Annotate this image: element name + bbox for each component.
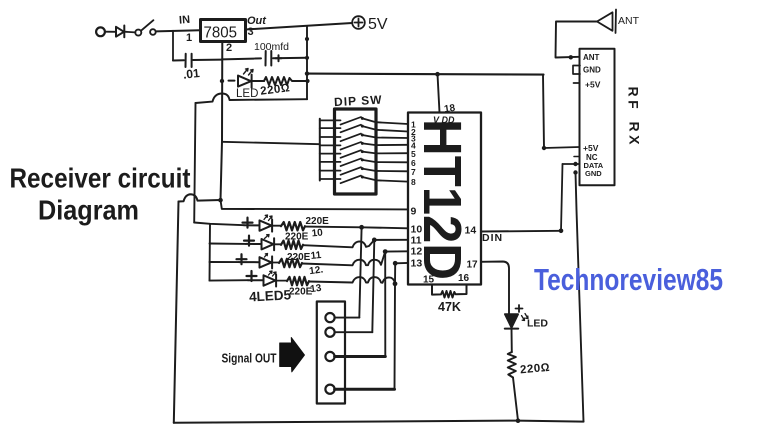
wire	[124, 31, 135, 34]
svg-text:12.: 12.	[309, 264, 325, 277]
svg-text:14: 14	[465, 225, 477, 237]
LED D6 output 4	[248, 275, 276, 287]
node pin10 junction	[359, 225, 364, 230]
node GND/LED junction	[220, 79, 224, 83]
node ANT wire	[569, 55, 573, 59]
LED D3 output 1	[244, 220, 272, 232]
diode D1	[116, 26, 124, 38]
wire DATA vertical	[561, 164, 563, 231]
LED D3 arrows	[264, 215, 272, 221]
svg-text:16: 16	[458, 273, 470, 284]
label + anode row4	[247, 271, 257, 281]
svg-text:11: 11	[310, 250, 322, 262]
node pin13 junction	[393, 261, 398, 266]
pin GND bracket	[573, 66, 580, 75]
node DIN/DATA junction	[559, 229, 564, 234]
node dots on x307	[305, 37, 310, 83]
wire RF GND down to bottom rail	[576, 173, 584, 422]
resistor R1 220ohm	[264, 77, 307, 85]
wire +5V feed with hop over x222	[196, 94, 308, 104]
node GND junction	[218, 198, 223, 203]
wire +5V anode rail corner to row1	[194, 223, 244, 226]
wire left GND rail	[174, 202, 179, 423]
svg-text:.01: .01	[182, 66, 200, 82]
wire pin14 DIN	[481, 230, 561, 233]
wire pin10	[362, 227, 408, 228]
wire DATA pin	[563, 163, 580, 165]
svg-text:10: 10	[411, 223, 423, 235]
node row4 junction	[393, 281, 398, 286]
wire pin11	[374, 239, 408, 241]
wire pin12	[385, 250, 408, 252]
svg-text:12: 12	[411, 246, 423, 258]
resistor R7 220ohm vertical	[508, 352, 516, 378]
wire anode sub-rail x210	[209, 224, 212, 281]
antenna ANT symbol	[597, 10, 616, 34]
svg-text:17: 17	[467, 260, 479, 271]
wire D7 to R7	[511, 329, 513, 352]
pin NC tick	[574, 156, 580, 158]
svg-text:+5V: +5V	[585, 80, 601, 90]
svg-text:IN: IN	[179, 14, 191, 27]
wire +5V top rail	[307, 74, 544, 75]
wire signal4 vertical	[394, 263, 397, 389]
wire 7805 out to +5V	[246, 23, 353, 30]
svg-text:100mfd: 100mfd	[254, 41, 289, 53]
resistor R5 220E	[273, 262, 279, 264]
connector pin 3	[325, 352, 334, 361]
LED D7	[505, 314, 518, 328]
input terminal J1	[96, 27, 105, 36]
wire row3 stub	[210, 261, 240, 263]
wire pin17 to LED	[481, 262, 509, 314]
LED D4 arrows	[265, 235, 270, 239]
wire signal2 vertical	[372, 240, 374, 332]
label + D7	[516, 305, 523, 312]
wire 7805 pin2 GND vertical x222	[221, 42, 223, 201]
resistor R4 220E	[275, 243, 281, 245]
svg-text:ANT: ANT	[618, 15, 640, 27]
svg-text:+5V: +5V	[583, 143, 599, 153]
connector pin 4	[325, 385, 334, 394]
pin +5V tick	[574, 82, 580, 84]
svg-text:18: 18	[443, 103, 456, 116]
wire signal1 vertical	[359, 227, 361, 317]
node DATA pin	[573, 162, 577, 166]
wire HT12D pin9 GND	[221, 200, 409, 209]
resistor R3 220E	[273, 225, 281, 227]
node VDD tap	[435, 72, 440, 77]
dip switch pole 8	[320, 178, 341, 180]
wire signal3 vertical	[384, 252, 386, 357]
wire +5V down to RF RX	[543, 75, 544, 148]
svg-text:9: 9	[411, 206, 417, 218]
svg-text:15: 15	[423, 275, 435, 286]
node LED chain to rail	[516, 418, 521, 423]
switch S1	[135, 20, 155, 35]
svg-text:8: 8	[411, 177, 416, 187]
wire +5V rail vertical x307	[306, 26, 308, 99]
svg-text:220E: 220E	[285, 232, 309, 243]
svg-text:Signal OUT: Signal OUT	[222, 352, 277, 366]
wire GND to DIP rail	[222, 142, 320, 144]
svg-text:V DD: V DD	[433, 115, 455, 125]
signal out arrow	[280, 338, 305, 372]
LED D7 arrows	[522, 314, 529, 321]
wire row4 to pin13 junction with hops	[309, 277, 395, 284]
wire row2 stub	[210, 243, 247, 245]
svg-text:5V: 5V	[368, 16, 388, 33]
label + anode row1	[243, 218, 253, 228]
dip switch pole 4	[320, 144, 341, 146]
node pin12 junction	[383, 249, 388, 254]
dip switch pole 3	[320, 136, 341, 138]
connector pin 1	[325, 313, 334, 322]
label + anode row3	[237, 254, 247, 264]
node input/C1 junction	[172, 31, 174, 61]
dip switch pole 7	[320, 170, 341, 172]
wire VDD pin18	[438, 74, 440, 112]
wire input to 7805 IN	[156, 30, 200, 31]
svg-text:LED: LED	[527, 318, 548, 330]
svg-text:47K: 47K	[438, 300, 461, 314]
dip switch pole 1	[320, 119, 341, 121]
svg-text:DIP SW: DIP SW	[334, 93, 383, 110]
svg-text:220E: 220E	[306, 216, 330, 227]
LED D4 output 2	[246, 238, 274, 250]
dip switch pole 6	[320, 161, 341, 163]
LED D5 arrows	[265, 254, 268, 258]
wire connector pin1	[335, 317, 360, 319]
wire +5V to RF RX pin	[544, 147, 580, 148]
capacitor C1 .01	[173, 54, 222, 67]
node pin11 junction	[372, 238, 377, 243]
svg-text:ANT: ANT	[583, 53, 600, 62]
svg-text:7805: 7805	[204, 25, 238, 42]
svg-text:13: 13	[310, 283, 323, 296]
svg-text:10: 10	[311, 227, 324, 239]
connector pin 2	[325, 328, 334, 337]
node RF +5V junction	[542, 146, 546, 150]
node GND pin	[573, 170, 577, 174]
IC U1 HT12D box	[408, 113, 481, 285]
dip switch SW1 box	[335, 109, 377, 194]
svg-text:2: 2	[226, 42, 232, 54]
wire row2 to pin11 junction with hop	[303, 240, 374, 247]
svg-text:1: 1	[186, 32, 192, 44]
wire antenna to RF RX	[556, 22, 598, 58]
svg-text:LED: LED	[236, 88, 258, 100]
svg-text:3: 3	[248, 26, 254, 38]
svg-text:4LED5: 4LED5	[249, 287, 292, 304]
dip switch pole 2	[320, 127, 341, 129]
regulator U2 7805	[201, 20, 246, 42]
svg-text:Receiver circuit: Receiver circuit	[10, 163, 191, 194]
LED D5 output 3	[239, 256, 272, 268]
wire	[105, 31, 116, 33]
dip switch left common rail	[319, 119, 321, 181]
module U3 RF RX box	[580, 49, 615, 186]
svg-text:RX: RX	[627, 122, 643, 148]
wire R7 to bottom rail	[513, 378, 518, 421]
wire row1 to pin10 junction	[305, 226, 362, 229]
label + anode row2	[244, 236, 254, 246]
wire connector pin4	[335, 388, 395, 391]
svg-text:13: 13	[411, 257, 423, 269]
LED D2 arrows	[244, 69, 254, 76]
svg-text:Diagram: Diagram	[38, 195, 139, 226]
svg-text:GND: GND	[583, 66, 601, 75]
svg-text:RF: RF	[626, 87, 642, 113]
resistor R6 220E	[277, 280, 287, 282]
svg-text:GND: GND	[585, 169, 602, 178]
connector J2 box	[317, 302, 345, 404]
wire bottom GND rail	[174, 421, 584, 423]
resistor R2 47K pins 15-16	[432, 285, 467, 298]
wire +5V anode rail vertical x195	[194, 103, 195, 223]
wire connector pin2	[335, 331, 373, 333]
dip switch pole 5	[320, 153, 341, 155]
LED D6 arrows	[269, 271, 277, 276]
wire connector pin3	[335, 355, 386, 358]
svg-text:220E: 220E	[287, 252, 311, 263]
wire row4 stub	[210, 279, 249, 281]
+5V supply symbol	[352, 16, 365, 29]
capacitor C2 100mfd	[222, 51, 307, 66]
wire pin13	[395, 262, 408, 264]
svg-text:7: 7	[411, 167, 416, 177]
wire row3 to pin12 junction with hops	[302, 252, 385, 266]
wire GND horizontal with hop over x195	[179, 194, 221, 201]
LED D2 power indicator	[229, 75, 265, 88]
svg-text:Technoreview85: Technoreview85	[534, 263, 723, 297]
svg-text:DIN: DIN	[482, 232, 503, 244]
